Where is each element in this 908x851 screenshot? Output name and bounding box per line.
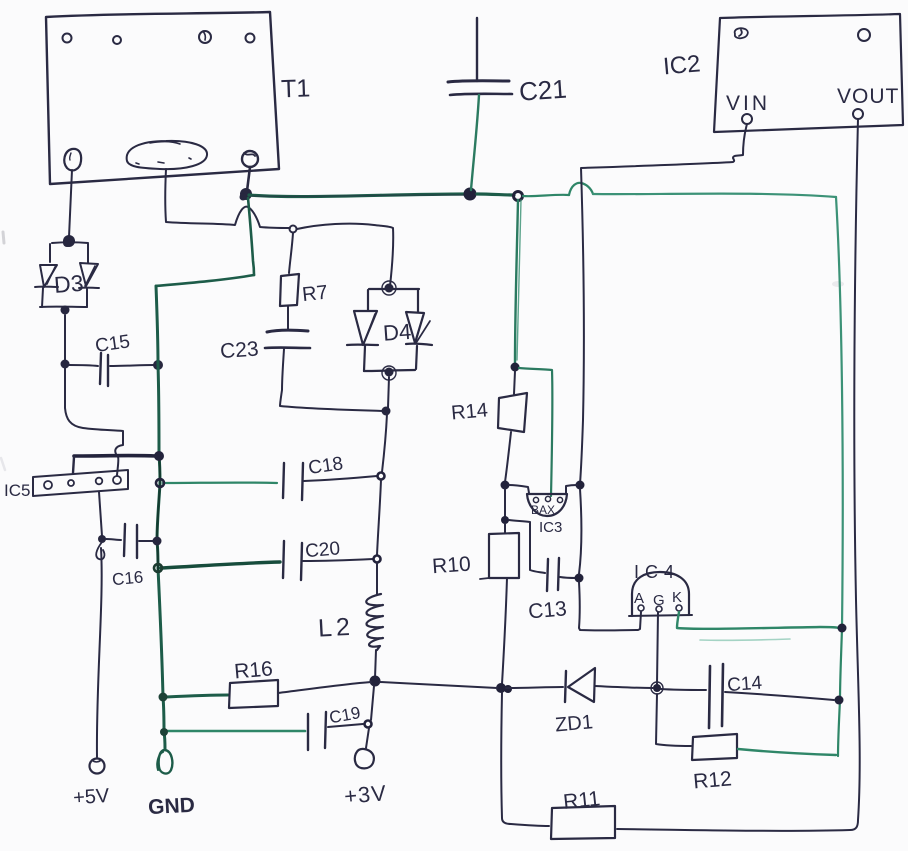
node R7 top (ring) [290, 226, 297, 233]
capacitor C14 [709, 666, 710, 728]
node rail R16 branch [159, 693, 168, 702]
wire ZD1 to node [595, 686, 653, 688]
node L2 bottom [370, 676, 381, 687]
node D3 top [63, 235, 75, 247]
+5V terminal [90, 759, 105, 774]
node C20 right (ring) [374, 556, 381, 563]
wire node to BAX left pin [509, 485, 529, 493]
green branch to C19 [167, 730, 305, 733]
wire R7 top to D4 top [297, 224, 393, 286]
capacitor C23 [267, 330, 308, 332]
IC2 hole right [858, 29, 870, 41]
resistor R12 [692, 734, 737, 760]
svg-text:T1: T1 [281, 74, 311, 103]
svg-text:A: A [634, 590, 644, 607]
svg-text:R14: R14 [450, 399, 488, 424]
wire T1 right pin to node [247, 167, 250, 191]
node K green junction [838, 624, 847, 633]
wire C18 right to vertical [304, 476, 377, 481]
green rail (GND) left vertical [156, 286, 165, 749]
thick wire above IC5 to rail [74, 454, 156, 458]
wire junction down to bottom rail [501, 693, 549, 826]
node ZD1 right junction [653, 684, 661, 692]
wire R16 to L2 node [278, 682, 371, 693]
wire VOUT down right side [617, 119, 860, 831]
wire node to C14 [661, 689, 706, 690]
green top rail dark segment [249, 194, 468, 197]
svg-text:GND: GND [148, 794, 196, 819]
wire D4 bottom to junction [388, 377, 389, 408]
green wire IC4 K pin to right vertical [677, 612, 839, 629]
connector IC5 [33, 470, 128, 496]
green vertical mid (to node 367) [515, 200, 518, 364]
wire L2 bottom to node [375, 650, 376, 678]
node BAX right [576, 481, 585, 490]
wire C15 to green rail [110, 365, 154, 366]
svg-text:+5V: +5V [72, 785, 110, 810]
diode pair D4 [347, 289, 432, 371]
wire C13 right to node [560, 577, 576, 578]
capacitor C21 [448, 18, 512, 95]
node C18 right (ring) [378, 473, 385, 480]
node C15 left [61, 360, 70, 369]
capacitor C18 [283, 463, 284, 498]
wire C15 node down to IC5 pin4 (with hook) [65, 368, 123, 475]
VIN pin [742, 114, 752, 124]
green branch to R16 [166, 695, 228, 697]
svg-text:C13: C13 [527, 597, 567, 623]
svg-text:IC3: IC3 [539, 519, 562, 536]
zener diode ZD1 [565, 671, 566, 702]
C21 lower stem (teal) [471, 95, 479, 190]
resistor R11 [551, 806, 615, 839]
node mid green [511, 363, 520, 372]
resistor R10 [489, 533, 519, 578]
svg-text:IC2: IC2 [662, 50, 702, 80]
svg-text:R11: R11 [562, 787, 601, 814]
node C21 junction [464, 188, 477, 201]
green right vertical [836, 197, 843, 628]
node green drop (ring) [514, 192, 523, 201]
IC2 hole left (squiggle) [735, 28, 748, 38]
node rail C18 branch (ring) [156, 479, 164, 487]
wire node down to R12 [656, 694, 691, 746]
wire D3 bottom to C15 node [64, 315, 66, 361]
transformer T1 [46, 12, 279, 184]
wire C13 node to IC4 A pin [579, 582, 641, 630]
IC2 box [714, 14, 903, 132]
node C16 left [98, 535, 106, 543]
svg-text:VIN: VIN [726, 92, 770, 115]
capacitor C20 [283, 541, 284, 578]
green rail to hump [523, 195, 569, 196]
wire IC5 pin3 down to C16 node [99, 492, 102, 536]
svg-text:K: K [672, 589, 682, 606]
green vertical from T1 node to corner [248, 198, 254, 275]
wire node down [504, 489, 506, 518]
green rail upper-left corner [156, 275, 254, 286]
wire R14 bottom to node [505, 432, 511, 482]
green branch to C18 [163, 481, 277, 484]
wire C19 right to +3V stem [328, 724, 363, 727]
node C19 right (ring) [365, 721, 372, 728]
node R10 top [501, 516, 509, 524]
green rail hump to right corner [593, 194, 836, 197]
wire C20 right to vertical [303, 559, 373, 561]
svg-text:BAX: BAX [531, 503, 555, 517]
wire C14 right to green vertical [725, 692, 834, 700]
svg-text:ZD1: ZD1 [554, 711, 594, 736]
svg-text:C21: C21 [518, 74, 568, 107]
node rail C19 branch [160, 728, 168, 736]
svg-text:D3: D3 [53, 270, 84, 298]
wire R7 top stem [289, 233, 293, 273]
capacitor C15 [100, 353, 101, 384]
svg-text:D4: D4 [382, 319, 412, 346]
resistor R7 [280, 274, 299, 306]
svg-text:R10: R10 [431, 553, 471, 579]
VOUT pin [853, 109, 863, 119]
wire C18 node down to C20 node [377, 480, 381, 555]
resistor R14 [498, 393, 527, 432]
node C13 right [575, 574, 584, 583]
svg-text:G: G [653, 592, 665, 609]
wire BAX right pin to node [566, 485, 577, 493]
wire T1 middle pin down and right (with hop over green) [165, 169, 290, 228]
node T1 right pin junction [240, 188, 252, 200]
wire node to R10 [504, 524, 506, 533]
wire BAX right node down to C13 node [579, 489, 581, 574]
wire R7 bottom to C23 [287, 306, 289, 329]
wire L2 node down to +3V [366, 686, 374, 748]
green wire R12 right to green vertical end [738, 749, 836, 755]
svg-text:L2: L2 [317, 613, 354, 643]
wire node to C16 left plate [106, 539, 121, 540]
green hump over VIN wire [569, 183, 593, 195]
resistor R16 [229, 680, 278, 708]
svg-text:R7: R7 [301, 282, 329, 307]
IC3 BAX dome [527, 494, 567, 516]
inductor L2 [366, 594, 383, 650]
green-dark branch to C20 [161, 562, 280, 568]
svg-text:VOUT: VOUT [837, 85, 899, 108]
faint green double-stroke [700, 639, 790, 640]
wire junction down to C18 node [382, 414, 387, 472]
wire +5V [97, 548, 102, 757]
wire C23 bottom path to D4 bottom node [280, 349, 384, 411]
wire node to R14 top [514, 371, 515, 394]
svg-text:+3V: +3V [343, 780, 388, 809]
wire L2 node to junction [380, 682, 497, 688]
node BAX left [501, 481, 510, 490]
capacitor C19 [307, 714, 309, 750]
diode pair D3 [35, 242, 99, 307]
svg-text:C20: C20 [304, 538, 341, 562]
wire VIN down-left-down to BAX right node [580, 124, 747, 484]
wire R10 bottom down [502, 578, 507, 684]
node main bottom-left junction [496, 683, 506, 693]
node C23/D4 junction [382, 407, 391, 416]
svg-text:IC5: IC5 [4, 481, 30, 500]
node D4 bottom [385, 368, 394, 377]
node rail C20 branch (ring) [154, 564, 162, 572]
green from node to IC3 middle pin [519, 368, 552, 496]
capacitor C13 [547, 559, 548, 591]
svg-text:C16: C16 [111, 568, 144, 590]
svg-text:IC4: IC4 [634, 562, 680, 582]
node D4 top [385, 284, 394, 293]
node rail at thick wire [154, 451, 164, 461]
IC4 dome [632, 572, 689, 616]
capacitor C16 [124, 524, 125, 556]
GND terminal [159, 750, 173, 774]
wire node to C13 left [509, 520, 545, 573]
svg-text:C23: C23 [219, 338, 259, 364]
wire to C15 left plate [69, 365, 98, 366]
wire C16 to rail [139, 540, 154, 542]
paper smudge left edge [3, 232, 4, 243]
paper smudge right [832, 281, 844, 287]
+3V terminal [355, 749, 374, 768]
wire C20 node to L2 top [376, 563, 378, 594]
green rail C21 to green-drop node [477, 194, 514, 195]
node C16 right on rail [153, 537, 162, 546]
svg-text:R12: R12 [692, 767, 732, 793]
wire ZD1 left [506, 687, 563, 688]
node C14 right [835, 696, 844, 705]
node D3 bottom [61, 306, 70, 315]
wire T1 left pin to D3 [69, 170, 72, 237]
svg-text:R16: R16 [233, 657, 273, 683]
wire IC4 G pin down [657, 612, 658, 684]
pigtail curl below node [96, 542, 104, 559]
node C15 right on rail [153, 360, 163, 370]
